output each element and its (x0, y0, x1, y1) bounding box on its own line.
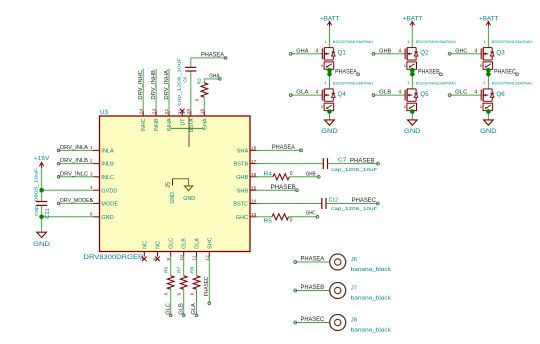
reference U3 (100, 109, 108, 116)
node GLB bottom (178, 289, 185, 316)
svg-text:GVDD: GVDD (101, 188, 117, 194)
IC U3 DRV8300DRGER gate driver body (100, 116, 251, 252)
svg-text:PHASEC: PHASEC (204, 277, 210, 297)
svg-text:GLB: GLB (379, 90, 391, 96)
node source dot Q1 (327, 68, 332, 73)
pin 5 MODE (90, 198, 119, 207)
node GLA gate label (289, 90, 322, 97)
svg-text:SHB: SHB (237, 188, 249, 194)
ground GND leg A (321, 112, 338, 135)
node DRV_INLB (57, 158, 93, 165)
svg-text:GHC: GHC (236, 215, 248, 221)
svg-text:5: 5 (321, 105, 323, 109)
power +BATT leg C (479, 15, 499, 26)
wire +BATT to Q1 drain (329, 27, 331, 48)
transistor Q2 (398, 40, 456, 70)
svg-text:SHA: SHA (237, 149, 249, 155)
pin 10 GLB (179, 238, 188, 261)
pin 15 SHB (237, 185, 257, 194)
transistor Q4 (316, 81, 374, 111)
svg-text:DRV_INLB: DRV_INLB (60, 158, 88, 164)
svg-text:GND: GND (33, 242, 51, 248)
svg-text:4: 4 (398, 48, 401, 54)
svg-text:DRV_INLA: DRV_INLA (60, 145, 88, 151)
svg-text:16: 16 (251, 172, 257, 178)
svg-text:PHASEB: PHASEB (350, 158, 375, 164)
svg-text:GND: GND (480, 129, 497, 135)
svg-text:BSTC: BSTC (233, 202, 248, 208)
svg-text:GHC: GHC (455, 48, 467, 54)
no-connect pin 7 (142, 257, 147, 262)
svg-text:cap_1206_10uF: cap_1206_10uF (331, 206, 378, 212)
wire internal net line (170, 116, 204, 147)
svg-text:U3: U3 (100, 109, 108, 116)
node GHB right (289, 172, 320, 179)
svg-text:DRV_INLC: DRV_INLC (60, 171, 88, 177)
svg-text:GLA: GLA (195, 238, 201, 249)
svg-text:R4: R4 (264, 171, 273, 177)
svg-text:+15V: +15V (34, 156, 50, 162)
svg-text:J8: J8 (351, 318, 357, 324)
pin 12 SHC (205, 237, 214, 260)
node PHASEA (SHA) (257, 145, 303, 152)
svg-text:0: 0 (177, 292, 182, 295)
svg-text:4: 4 (398, 90, 401, 96)
svg-text:4: 4 (316, 90, 319, 96)
node junction +15V/GVDD (39, 188, 44, 193)
svg-text:BSC007N04LS6ATMA1: BSC007N04LS6ATMA1 (333, 81, 374, 85)
pin 18 SHA (237, 146, 257, 155)
node GHB gate label (372, 48, 405, 55)
svg-text:BSC007N04LS6ATMA1: BSC007N04LS6ATMA1 (416, 40, 457, 44)
svg-text:cap_1206_10uF: cap_1206_10uF (176, 57, 181, 105)
pin 9 GLC (166, 238, 175, 261)
svg-text:GLB: GLB (178, 303, 184, 315)
capacitor C12 (257, 198, 378, 212)
svg-text:5: 5 (480, 105, 482, 109)
svg-text:5: 5 (480, 64, 482, 68)
pin 20 BSTA (186, 109, 195, 133)
svg-text:PHASEA: PHASEA (272, 145, 295, 151)
svg-text:DRV_INHC: DRV_INHC (138, 70, 144, 100)
wire GND rail (42, 216, 93, 218)
svg-text:R7: R7 (177, 266, 183, 273)
svg-text:GHA: GHA (209, 73, 220, 79)
node PHASEC (BSTC) (326, 198, 379, 205)
svg-text:13: 13 (251, 212, 257, 218)
svg-text:GND: GND (170, 192, 176, 204)
node GHA gate label (289, 48, 322, 55)
svg-text:0: 0 (190, 292, 195, 295)
svg-text:PHASEB: PHASEB (271, 185, 296, 191)
svg-text:BSTA: BSTA (189, 118, 195, 132)
resistor R3 (194, 78, 207, 111)
pin 24 INHC (138, 109, 147, 132)
ground GND leg C (480, 112, 497, 135)
node source dot Q3 (486, 68, 491, 73)
svg-text:1: 1 (325, 81, 327, 85)
svg-text:25: 25 (166, 182, 172, 188)
node PHASEB (BSTB) (328, 158, 380, 165)
svg-text:GHA: GHA (202, 118, 208, 130)
svg-text:15: 15 (251, 185, 257, 191)
svg-text:1: 1 (483, 40, 485, 44)
svg-text:GND: GND (404, 129, 421, 135)
svg-text:PHASEC: PHASEC (301, 317, 325, 323)
svg-text:PHASEB: PHASEB (301, 285, 325, 291)
node GHC right (289, 211, 319, 219)
power +15V (34, 156, 50, 190)
connector J7 banana jack (294, 283, 391, 302)
svg-text:5: 5 (321, 64, 323, 68)
pin 2 INLB (90, 158, 114, 167)
svg-text:R6: R6 (164, 266, 170, 273)
node GLB gate label (372, 90, 405, 97)
pin 21 DT (178, 109, 187, 126)
resistor R5 (257, 214, 293, 225)
pin 6 GND (90, 212, 114, 221)
transistor Q5 (398, 81, 456, 111)
svg-text:banana_black: banana_black (351, 296, 391, 302)
svg-text:GHB: GHB (379, 48, 391, 54)
svg-text:1: 1 (407, 40, 409, 44)
node PHASEA top (191, 52, 227, 59)
node DRV_INHB (151, 69, 157, 111)
resistor R4 (257, 171, 293, 180)
pin 14 BSTC (233, 199, 256, 208)
node DRV_INLA (57, 145, 93, 152)
svg-text:INLB: INLB (101, 162, 114, 168)
svg-text:0: 0 (194, 98, 199, 101)
svg-text:DRV8300DRGER: DRV8300DRGER (84, 254, 145, 261)
pin 4 GVDD (90, 185, 118, 194)
svg-text:R5: R5 (264, 218, 273, 224)
pin 19 GHA (200, 109, 209, 131)
wire GVDD rail (42, 189, 93, 191)
node GLA bottom (191, 289, 198, 316)
power +BATT leg B (403, 15, 423, 26)
svg-text:GLA: GLA (191, 303, 197, 315)
svg-text:PHASEA: PHASEA (201, 52, 224, 58)
svg-text:Q2: Q2 (420, 50, 429, 57)
svg-text:GHA: GHA (296, 48, 308, 54)
svg-text:BSC007N04LS6ATMA1: BSC007N04LS6ATMA1 (492, 81, 533, 85)
power +BATT leg A (320, 15, 340, 26)
no-connect pin 8 (155, 257, 160, 262)
capacitor C7 (257, 158, 378, 173)
resistor R7 (177, 257, 187, 296)
svg-text:Q5: Q5 (420, 91, 429, 98)
svg-text:INHA: INHA (167, 118, 173, 131)
transistor Q1 (316, 40, 374, 70)
svg-text:1: 1 (483, 81, 485, 85)
svg-text:NC: NC (142, 241, 148, 249)
svg-text:C6: C6 (183, 76, 189, 83)
pin 8 NC (153, 241, 162, 261)
pin 17 BSTB (234, 159, 257, 168)
svg-text:GLB: GLB (182, 238, 188, 249)
svg-text:R3: R3 (197, 78, 203, 85)
value DRV8300DRGER (84, 254, 145, 261)
svg-text:5: 5 (404, 64, 406, 68)
svg-text:PHASEC: PHASEC (494, 68, 516, 75)
svg-text:Q1: Q1 (338, 50, 347, 57)
capacitor C6 (176, 57, 196, 111)
svg-text:0: 0 (290, 217, 293, 223)
svg-text:BSC007N04LS6ATMA1: BSC007N04LS6ATMA1 (333, 40, 374, 44)
svg-text:DRV_INHA: DRV_INHA (164, 70, 170, 100)
svg-text:C7: C7 (338, 158, 347, 164)
svg-text:BSC007N04LS6ATMA1: BSC007N04LS6ATMA1 (416, 81, 457, 85)
no-connect pin 21 DT (180, 109, 185, 114)
svg-text:5: 5 (404, 105, 406, 109)
svg-text:GND: GND (101, 215, 113, 221)
svg-text:BSTB: BSTB (234, 162, 249, 168)
svg-text:1: 1 (325, 40, 327, 44)
svg-text:GHC: GHC (306, 211, 316, 217)
svg-text:J7: J7 (351, 286, 357, 292)
ground GND leg B (404, 112, 421, 135)
pin 13 GHC (236, 212, 257, 221)
ground left GND (33, 217, 51, 248)
node PHASEC bottom (pin 12 SHC) (204, 257, 211, 305)
svg-text:PHASEA: PHASEA (301, 257, 325, 263)
svg-text:GLC: GLC (165, 303, 171, 314)
svg-text:4: 4 (474, 90, 477, 96)
svg-text:NC: NC (156, 241, 162, 249)
pin 25 GND thermal pad (166, 179, 196, 204)
svg-text:BSC007N04LS6ATMA1: BSC007N04LS6ATMA1 (492, 40, 533, 44)
node DRV_INHC (138, 69, 144, 111)
node GLC gate label (448, 90, 481, 97)
svg-text:PHASEA: PHASEA (335, 68, 358, 75)
svg-text:INLC: INLC (101, 175, 114, 181)
svg-text:GLC: GLC (455, 90, 467, 96)
pin 23 INHB (151, 109, 160, 132)
svg-text:18: 18 (251, 146, 257, 152)
node source dot Q6 (486, 109, 491, 114)
node DRV_INHA (164, 69, 170, 111)
svg-text:DRV_INHB: DRV_INHB (151, 70, 157, 100)
svg-text:PHASEB: PHASEB (418, 68, 440, 75)
node PHASEC junction (486, 68, 518, 89)
node DRV_INLC (57, 171, 93, 178)
svg-text:MODE: MODE (101, 202, 118, 208)
pin 7 NC (140, 241, 149, 261)
node GHA top (204, 73, 221, 80)
node GLC bottom (165, 289, 172, 316)
node source dot Q4 (327, 109, 332, 114)
svg-text:J6: J6 (351, 257, 357, 263)
svg-text:cap_0805_10uF: cap_0805_10uF (33, 168, 38, 216)
node source dot Q5 (410, 109, 415, 114)
node source dot Q2 (410, 68, 415, 73)
svg-text:DT: DT (180, 118, 186, 126)
node PHASEB junction (410, 68, 442, 89)
svg-text:Q3: Q3 (496, 50, 505, 57)
svg-text:C12: C12 (329, 198, 338, 204)
svg-text:4: 4 (474, 48, 477, 54)
node PHASEA junction (327, 68, 359, 89)
node PHASEB (SHB) (257, 185, 299, 192)
wire +BATT to Q2 drain (411, 27, 413, 48)
connector J6 banana jack (294, 254, 391, 273)
svg-text:0: 0 (290, 171, 293, 177)
svg-text:banana_black: banana_black (351, 328, 391, 334)
capacitor C11 (33, 168, 50, 219)
node DRV_MODES (57, 198, 93, 205)
wire +BATT to Q3 drain (487, 27, 489, 48)
resistor R6 (164, 257, 174, 296)
pin 1 INLA (90, 145, 114, 154)
node junction C11/GND (39, 215, 44, 220)
svg-text:17: 17 (251, 159, 257, 165)
node GHC gate label (448, 48, 481, 55)
svg-text:banana_black: banana_black (351, 267, 391, 273)
transistor Q3 (474, 40, 532, 70)
svg-text:GLC: GLC (169, 238, 175, 249)
svg-text:C11: C11 (45, 208, 51, 219)
pin 3 INLC (90, 172, 114, 181)
svg-text:cap_1206_10uF: cap_1206_10uF (331, 167, 378, 173)
svg-text:1: 1 (407, 81, 409, 85)
resistor R8 (190, 257, 200, 296)
svg-text:Q4: Q4 (338, 91, 347, 98)
pin 16 GHB (236, 172, 257, 181)
svg-text:PHASEC: PHASEC (352, 198, 377, 204)
pin 11 GLA (192, 238, 201, 261)
svg-text:0: 0 (164, 292, 169, 295)
svg-text:14: 14 (251, 199, 257, 205)
transistor Q6 (474, 81, 532, 111)
svg-text:R8: R8 (190, 266, 196, 273)
svg-text:GHB: GHB (306, 172, 316, 178)
svg-text:GND: GND (321, 129, 338, 135)
svg-text:DRV_MODES: DRV_MODES (60, 198, 93, 204)
svg-text:INHC: INHC (141, 118, 147, 131)
svg-text:SHC: SHC (207, 237, 213, 248)
svg-text:INLA: INLA (101, 149, 114, 155)
svg-text:GLA: GLA (296, 90, 308, 96)
connector J8 banana jack (294, 315, 391, 334)
svg-text:4: 4 (316, 48, 319, 54)
svg-text:GHB: GHB (236, 175, 248, 181)
svg-text:Q6: Q6 (496, 91, 505, 98)
pin 22 INHA (164, 109, 173, 132)
svg-text:GND: GND (183, 196, 195, 202)
svg-text:INHB: INHB (154, 118, 160, 131)
